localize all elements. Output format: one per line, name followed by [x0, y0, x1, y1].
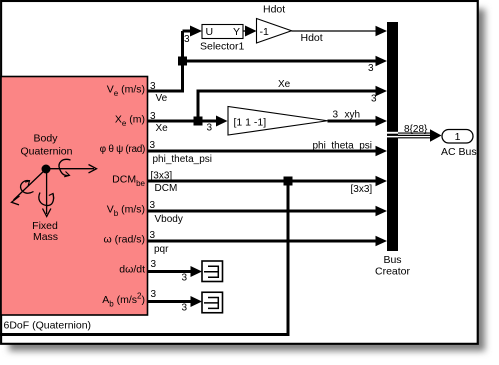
svg-text:AC Bus: AC Bus	[441, 146, 477, 158]
icon: x axis arrow	[46, 168, 94, 170]
svg-text:8{28}: 8{28}	[404, 124, 428, 135]
svg-text:3: 3	[182, 303, 188, 314]
wire DCM tap down and left off canvas	[0, 181, 288, 335]
icon: rotation arc around y axis	[21, 181, 34, 194]
arrow into bus (xyh)	[376, 116, 388, 126]
svg-text:DCM: DCM	[155, 183, 178, 194]
arrow into bus (Xe)	[376, 86, 388, 96]
svg-text:-1: -1	[260, 26, 269, 38]
svg-text:Selector1: Selector1	[200, 41, 245, 53]
svg-text:3: 3	[151, 289, 157, 300]
svg-text:[1 1 -1]: [1 1 -1]	[234, 117, 267, 129]
wire Xe tap up and to bus	[198, 91, 376, 122]
bus output stripes across bar	[386, 132, 398, 134]
svg-text:[3x3]: [3x3]	[351, 184, 373, 195]
Selector1 block	[202, 25, 243, 39]
svg-text:[3x3]: [3x3]	[151, 171, 173, 182]
wire Selector1 to gain	[243, 30, 246, 32]
wire Ab to terminator	[148, 300, 192, 303]
svg-text:3: 3	[368, 63, 374, 74]
svg-text:3: 3	[371, 94, 377, 105]
svg-text:Bus: Bus	[383, 254, 401, 266]
svg-text:1: 1	[455, 131, 461, 143]
arrow into gain [1 1 -1]	[216, 116, 228, 127]
svg-text:Hdot: Hdot	[263, 4, 285, 16]
svg-text:Mass: Mass	[33, 231, 58, 243]
icon: z axis arrow (down)	[46, 169, 48, 214]
svg-text:xyh: xyh	[345, 110, 361, 121]
outport 1 (AC Bus)	[442, 130, 473, 144]
icon: y axis arrow (diagonal)	[14, 169, 47, 200]
wire Ve tap to bus creator	[183, 60, 377, 63]
svg-text:Body: Body	[34, 133, 59, 145]
svg-text:3: 3	[150, 81, 156, 92]
svg-text:dω/dt: dω/dt	[119, 264, 145, 276]
junction on selector riser	[178, 57, 187, 66]
wire Xe port to gain [1 1 -1]	[148, 120, 218, 123]
svg-text:Quaternion: Quaternion	[21, 146, 73, 158]
arrow into bus (phi_theta_psi)	[376, 146, 388, 156]
svg-text:Creator: Creator	[375, 266, 411, 278]
arrow into bus (Hdot)	[376, 26, 388, 36]
icon: rotation arc around z axis	[39, 193, 54, 206]
wire phi_theta_psi to bus	[148, 150, 377, 153]
arrow into terminator 2	[191, 296, 203, 307]
svg-text:3: 3	[150, 200, 156, 211]
svg-text:Ve: Ve	[156, 93, 168, 104]
arrow into Selector1	[190, 26, 202, 37]
svg-text:ω (rad/s): ω (rad/s)	[104, 234, 145, 246]
svg-text:pqr: pqr	[154, 244, 169, 255]
svg-text:φ θ ψ (rad): φ θ ψ (rad)	[100, 144, 145, 155]
wire domega/dt to terminator	[148, 270, 192, 273]
svg-text:3: 3	[182, 273, 188, 284]
svg-text:3: 3	[184, 34, 190, 45]
svg-text:6DoF (Quaternion): 6DoF (Quaternion)	[4, 320, 92, 332]
svg-text:3: 3	[150, 140, 156, 151]
icon: center ball	[42, 165, 51, 174]
svg-text:3: 3	[150, 230, 156, 241]
svg-text:Vbody: Vbody	[155, 214, 183, 225]
gain Hdot (-1)	[257, 19, 292, 44]
Bus Creator bar	[387, 22, 398, 251]
terminator block 2	[202, 292, 223, 313]
svg-text:U: U	[206, 26, 214, 38]
gain [1 1 -1]	[228, 107, 328, 136]
wire gain to bus (xyh)	[328, 120, 377, 123]
svg-text:3: 3	[207, 123, 213, 134]
svg-text:Xe: Xe	[156, 123, 169, 134]
svg-text:3: 3	[150, 111, 156, 122]
arrow into terminator 1	[191, 266, 203, 277]
arrow into bus (Vbody)	[376, 206, 388, 216]
svg-text:Y: Y	[233, 26, 240, 38]
wire Vbody to bus	[148, 210, 377, 213]
wire pqr to bus	[148, 240, 377, 243]
junction on Xe wire	[194, 117, 203, 126]
block 6DoF (Quaternion) body	[1, 77, 148, 316]
junction on DCM wire	[284, 177, 293, 186]
svg-text:phi_theta_psi: phi_theta_psi	[313, 141, 373, 152]
arrow into outport	[430, 129, 442, 141]
arrow into bus (Ve)	[376, 56, 388, 66]
svg-text:Hdot: Hdot	[301, 32, 323, 44]
terminator block 1	[202, 261, 223, 282]
arrow into gain Hdot	[245, 26, 257, 37]
svg-text:3: 3	[333, 110, 339, 121]
svg-text:phi_theta_psi: phi_theta_psi	[153, 154, 213, 165]
icon: rotation arc around x axis	[59, 159, 70, 175]
svg-text:3: 3	[151, 259, 157, 270]
svg-text:Xe: Xe	[278, 79, 291, 90]
bus output 3-line wire	[398, 133, 430, 138]
wire gain to bus (Hdot)	[292, 30, 377, 32]
wire DCM to bus	[148, 180, 377, 183]
arrow into bus (DCM)	[376, 176, 388, 186]
wire Ve port to corner, up to Selector row	[148, 31, 192, 93]
arrow into bus (pqr)	[376, 236, 388, 246]
